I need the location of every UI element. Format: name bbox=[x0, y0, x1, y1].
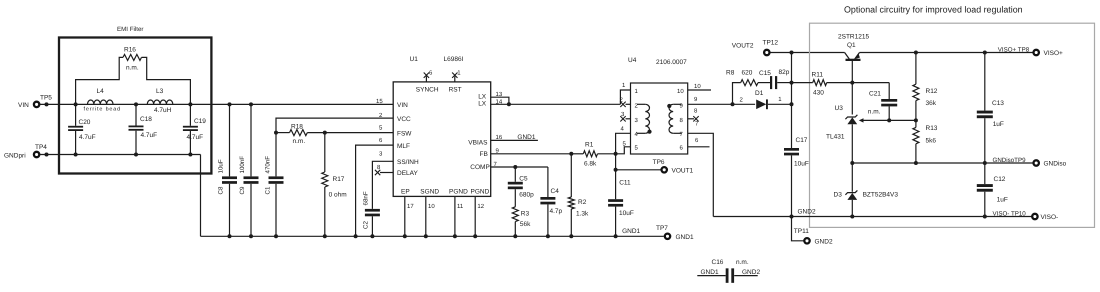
diode D1 bbox=[733, 103, 756, 105]
svg-text:DELAY: DELAY bbox=[397, 170, 418, 177]
svg-text:10uF: 10uF bbox=[218, 159, 225, 173]
svg-text:C15: C15 bbox=[759, 70, 771, 77]
svg-text:100nF: 100nF bbox=[239, 156, 246, 174]
wire MLF to GND1 bbox=[356, 145, 394, 236]
svg-text:C2: C2 bbox=[363, 221, 370, 229]
node LX junction bbox=[507, 102, 511, 106]
svg-text:C18: C18 bbox=[140, 116, 152, 123]
node FB-R2 junction bbox=[569, 152, 573, 156]
resistor R11 430 bbox=[792, 82, 813, 84]
wire GND2 VISO- rail bbox=[713, 216, 1032, 218]
svg-text:430: 430 bbox=[813, 90, 824, 97]
node R18-R17-FSW junction bbox=[323, 131, 327, 135]
wire GNDpri rail bbox=[40, 154, 201, 156]
resistor R3 56k bbox=[512, 207, 518, 222]
svg-text:11: 11 bbox=[457, 203, 464, 210]
svg-text:D1: D1 bbox=[755, 90, 764, 97]
svg-text:GNDpri: GNDpri bbox=[4, 153, 26, 160]
svg-text:SYNCH: SYNCH bbox=[416, 87, 439, 94]
svg-text:C12: C12 bbox=[994, 176, 1006, 183]
TP11 test point GND2 bbox=[792, 217, 804, 241]
svg-text:BZT52B4V3: BZT52B4V3 bbox=[863, 192, 899, 199]
svg-text:2STR1215: 2STR1215 bbox=[838, 34, 869, 41]
svg-text:MLF: MLF bbox=[397, 143, 410, 150]
capacitor C13 1uF bbox=[984, 53, 986, 111]
svg-text:1.3k: 1.3k bbox=[576, 211, 589, 218]
U4 secondary winding bbox=[673, 103, 681, 105]
svg-text:TP5: TP5 bbox=[40, 95, 52, 102]
capacitor C9 100nF bbox=[250, 104, 252, 176]
node C21-ref junction bbox=[887, 118, 891, 122]
U4 primary winding bbox=[637, 103, 645, 105]
svg-text:TP4: TP4 bbox=[35, 144, 47, 151]
svg-text:EMI Filter: EMI Filter bbox=[117, 26, 143, 33]
svg-text:R3: R3 bbox=[521, 211, 530, 218]
svg-text:VIN: VIN bbox=[18, 102, 29, 109]
svg-text:VIN: VIN bbox=[397, 102, 408, 109]
svg-text:GND2: GND2 bbox=[798, 209, 816, 216]
inductor L3 4.7uH bbox=[147, 100, 173, 104]
svg-text:Q1: Q1 bbox=[847, 42, 856, 49]
node C8 tap bbox=[228, 102, 232, 106]
resistor R17 0 ohm bbox=[324, 133, 326, 172]
svg-text:C1: C1 bbox=[265, 186, 272, 194]
svg-text:C13: C13 bbox=[992, 100, 1004, 107]
svg-text:LX: LX bbox=[478, 94, 487, 101]
svg-text:VISO- TP10: VISO- TP10 bbox=[993, 210, 1027, 217]
U1 bottom pin 12 PGND bbox=[474, 196, 476, 236]
svg-text:EP: EP bbox=[401, 188, 410, 195]
svg-text:0 ohm: 0 ohm bbox=[329, 192, 347, 199]
resistor R18 n.m. bbox=[276, 132, 290, 134]
EMI filter box bbox=[59, 38, 211, 174]
svg-text:4.7uF: 4.7uF bbox=[79, 134, 96, 141]
svg-text:GNDiso: GNDiso bbox=[1044, 161, 1067, 168]
svg-text:1uF: 1uF bbox=[997, 196, 1008, 203]
resistor R13 5k6 bbox=[915, 120, 917, 127]
svg-text:GND1: GND1 bbox=[622, 228, 640, 235]
svg-text:L3: L3 bbox=[156, 88, 164, 95]
svg-text:VBIAS: VBIAS bbox=[468, 139, 488, 146]
wire VOUT2 rail to Q1 bbox=[770, 52, 844, 54]
svg-text:n.m.: n.m. bbox=[736, 259, 749, 266]
capacitor C11 10uF bbox=[608, 199, 623, 202]
svg-text:GND1: GND1 bbox=[676, 234, 694, 241]
svg-text:C16: C16 bbox=[712, 259, 724, 266]
resistor R8 620 bbox=[733, 83, 741, 105]
node C12 bottom bbox=[983, 215, 987, 219]
svg-text:36k: 36k bbox=[926, 100, 937, 107]
wire GNDiso rail bbox=[852, 162, 1033, 164]
node ref-R12-R13 junction bbox=[914, 118, 918, 122]
wire GND1 rail bbox=[201, 235, 664, 237]
resistor R1 6.8k bbox=[571, 153, 583, 155]
svg-text:GND1: GND1 bbox=[517, 134, 535, 141]
svg-text:C8: C8 bbox=[218, 186, 225, 194]
svg-text:R13: R13 bbox=[926, 125, 938, 132]
U1 bottom pin 11 PGND bbox=[454, 196, 456, 236]
node VOUT1-TP6 junction bbox=[614, 168, 618, 172]
svg-text:R17: R17 bbox=[333, 176, 345, 183]
svg-text:U4: U4 bbox=[628, 57, 637, 64]
svg-text:VOUT2: VOUT2 bbox=[732, 43, 754, 50]
wire TL431 anode bbox=[851, 124, 853, 192]
svg-text:4.7uF: 4.7uF bbox=[187, 134, 204, 141]
svg-text:L4: L4 bbox=[97, 88, 105, 95]
capacitor C1 470nF bbox=[269, 176, 284, 179]
capacitor C8 10uF bbox=[229, 104, 231, 176]
svg-text:GNDisoTP9: GNDisoTP9 bbox=[993, 157, 1027, 164]
svg-text:VOUT1: VOUT1 bbox=[672, 168, 694, 175]
wire VOUT1 net bbox=[615, 154, 617, 199]
svg-text:R1: R1 bbox=[585, 142, 594, 149]
svg-text:R2: R2 bbox=[578, 199, 587, 206]
svg-text:FB: FB bbox=[480, 151, 488, 158]
U4 primary polarity dot bbox=[647, 130, 651, 134]
svg-text:10: 10 bbox=[694, 83, 701, 90]
svg-text:TP7: TP7 bbox=[656, 225, 668, 232]
svg-text:R16: R16 bbox=[124, 47, 136, 54]
svg-text:C9: C9 bbox=[239, 186, 246, 194]
node R1-pin4 junction bbox=[614, 152, 618, 156]
node filter output junction bbox=[188, 102, 192, 106]
capacitor C2 68nF bbox=[365, 209, 380, 212]
svg-text:PGND: PGND bbox=[471, 188, 490, 195]
svg-text:PGND: PGND bbox=[449, 188, 468, 195]
capacitor C15 82p bbox=[770, 76, 772, 89]
svg-text:12: 12 bbox=[477, 203, 484, 210]
svg-text:82p: 82p bbox=[779, 69, 790, 76]
svg-text:10uF: 10uF bbox=[794, 161, 809, 168]
svg-text:2106.0007: 2106.0007 bbox=[656, 59, 687, 66]
node COMP-C5 junction bbox=[513, 165, 517, 169]
svg-text:C19: C19 bbox=[194, 118, 206, 125]
svg-text:10: 10 bbox=[428, 203, 435, 210]
svg-text:4.7uF: 4.7uF bbox=[141, 132, 158, 139]
svg-text:C20: C20 bbox=[79, 119, 91, 126]
node filter input junction bbox=[74, 102, 78, 106]
capacitor C18 4.7uF bbox=[135, 104, 137, 125]
optional circuitry box bbox=[810, 23, 1095, 227]
svg-text:C4: C4 bbox=[551, 188, 560, 195]
U1 pin 6 SYNCH no-connect bbox=[425, 76, 427, 82]
svg-text:ferrite bead: ferrite bead bbox=[84, 106, 121, 112]
svg-text:n.m.: n.m. bbox=[126, 65, 139, 72]
node R18-VCC junction bbox=[274, 131, 278, 135]
wire SS/INH net bbox=[372, 161, 393, 209]
svg-text:U3: U3 bbox=[835, 105, 844, 112]
svg-text:C21: C21 bbox=[869, 91, 881, 98]
svg-text:C11: C11 bbox=[619, 179, 631, 186]
U1 bottom pin 17 EP bbox=[404, 196, 406, 236]
svg-text:R11: R11 bbox=[812, 72, 824, 79]
wire Q1 base bbox=[851, 61, 853, 115]
capacitor C17 10uF bbox=[784, 148, 799, 151]
svg-text:C17: C17 bbox=[796, 137, 808, 144]
wire VOUT2 vertical bbox=[791, 53, 793, 149]
node C15-R11 junction bbox=[790, 81, 794, 85]
svg-text:SS/INH: SS/INH bbox=[397, 159, 419, 166]
svg-text:R12: R12 bbox=[926, 88, 938, 95]
IC U1 L6986I bbox=[393, 82, 491, 196]
node C13 top bbox=[983, 51, 987, 55]
svg-text:L6986I: L6986I bbox=[444, 56, 464, 63]
svg-text:4.7uH: 4.7uH bbox=[154, 107, 172, 114]
svg-text:n.m.: n.m. bbox=[293, 138, 306, 145]
node L4-L3 junction bbox=[134, 102, 138, 106]
svg-text:10uF: 10uF bbox=[619, 210, 634, 217]
svg-text:GND1: GND1 bbox=[701, 269, 719, 276]
node C9 tap bbox=[249, 102, 253, 106]
capacitor C12 1uF bbox=[984, 163, 986, 184]
capacitor C19 4.7uF bbox=[189, 104, 191, 125]
node R13 bottom bbox=[914, 161, 918, 165]
svg-text:R18: R18 bbox=[291, 124, 303, 131]
svg-text:4.7p: 4.7p bbox=[550, 208, 563, 215]
wire to transformer pin 5 bbox=[616, 147, 631, 154]
capacitor C4 4.7p bbox=[547, 167, 549, 197]
svg-text:15: 15 bbox=[376, 98, 383, 105]
svg-text:TP11: TP11 bbox=[794, 228, 809, 235]
node R12 top bbox=[914, 51, 918, 55]
svg-text:680p: 680p bbox=[519, 191, 534, 198]
svg-text:D3: D3 bbox=[834, 192, 843, 199]
node VOUT2-TP12 junction bbox=[790, 51, 794, 55]
svg-text:C5: C5 bbox=[519, 176, 528, 183]
svg-text:LX: LX bbox=[478, 101, 487, 108]
capacitor C21 n.m. bbox=[888, 83, 890, 99]
svg-text:1uF: 1uF bbox=[993, 121, 1004, 128]
resistor R16 n.m. bbox=[76, 57, 123, 104]
wire VISO+ rail bbox=[860, 52, 1034, 54]
svg-text:10: 10 bbox=[677, 88, 684, 95]
wire to TP6 bbox=[616, 169, 661, 171]
svg-text:VISO+: VISO+ bbox=[1044, 50, 1064, 57]
svg-text:TP12: TP12 bbox=[763, 40, 779, 47]
svg-text:6.8k: 6.8k bbox=[584, 161, 597, 168]
svg-text:U1: U1 bbox=[410, 56, 419, 63]
resistor R2 1.3k bbox=[570, 154, 572, 197]
node C17-GND2 junction bbox=[790, 215, 794, 219]
svg-text:620: 620 bbox=[742, 69, 753, 76]
svg-text:VISO-: VISO- bbox=[1041, 214, 1059, 221]
U1 pin 1 RST no-connect bbox=[454, 76, 456, 82]
node pin9-R8-D1 junction bbox=[731, 102, 735, 106]
node D1-C17 junction bbox=[790, 102, 794, 106]
wire VIN rail bbox=[40, 103, 393, 105]
svg-text:Optional circuitry for improve: Optional circuitry for improved load reg… bbox=[844, 4, 1023, 14]
node D3-GND2 junction bbox=[850, 215, 854, 219]
inductor L4 ferrite bead bbox=[88, 100, 114, 104]
resistor R12 36k bbox=[915, 53, 917, 85]
wire VCC net bbox=[276, 118, 393, 176]
U1 bottom pin 10 SGND bbox=[425, 196, 427, 236]
svg-text:TP6: TP6 bbox=[653, 159, 665, 166]
svg-text:SGND: SGND bbox=[420, 188, 439, 195]
svg-text:VISO+ TP8: VISO+ TP8 bbox=[998, 46, 1030, 53]
node TL431 anode-D3 junction bbox=[850, 161, 854, 165]
svg-text:COMP: COMP bbox=[470, 164, 490, 171]
svg-text:68nF: 68nF bbox=[363, 191, 370, 205]
wire D3 anode bbox=[851, 200, 853, 217]
TL431 ref arrow bbox=[863, 119, 916, 121]
svg-text:R8: R8 bbox=[726, 69, 735, 76]
svg-text:VCC: VCC bbox=[397, 116, 411, 123]
svg-text:GND2: GND2 bbox=[815, 239, 833, 246]
node Q1 base-R11 junction bbox=[850, 81, 854, 85]
capacitor C20 4.7uF bbox=[75, 104, 77, 125]
svg-text:470nF: 470nF bbox=[265, 156, 272, 174]
svg-text:17: 17 bbox=[407, 203, 414, 210]
wire GNDpri to GND1 rail bbox=[200, 155, 202, 237]
node C12-C13 junction bbox=[983, 161, 987, 165]
capacitor C5 680p bbox=[514, 167, 516, 182]
svg-text:n.m.: n.m. bbox=[868, 109, 881, 116]
svg-text:FSW: FSW bbox=[397, 130, 412, 137]
svg-text:GND2: GND2 bbox=[742, 269, 760, 276]
svg-text:TL431: TL431 bbox=[826, 134, 845, 141]
svg-text:5k6: 5k6 bbox=[926, 138, 937, 145]
transformer U4 2106.0007 bbox=[631, 83, 688, 154]
svg-text:56k: 56k bbox=[520, 221, 531, 228]
U4 secondary polarity dot bbox=[667, 104, 671, 108]
svg-text:RST: RST bbox=[449, 87, 462, 94]
